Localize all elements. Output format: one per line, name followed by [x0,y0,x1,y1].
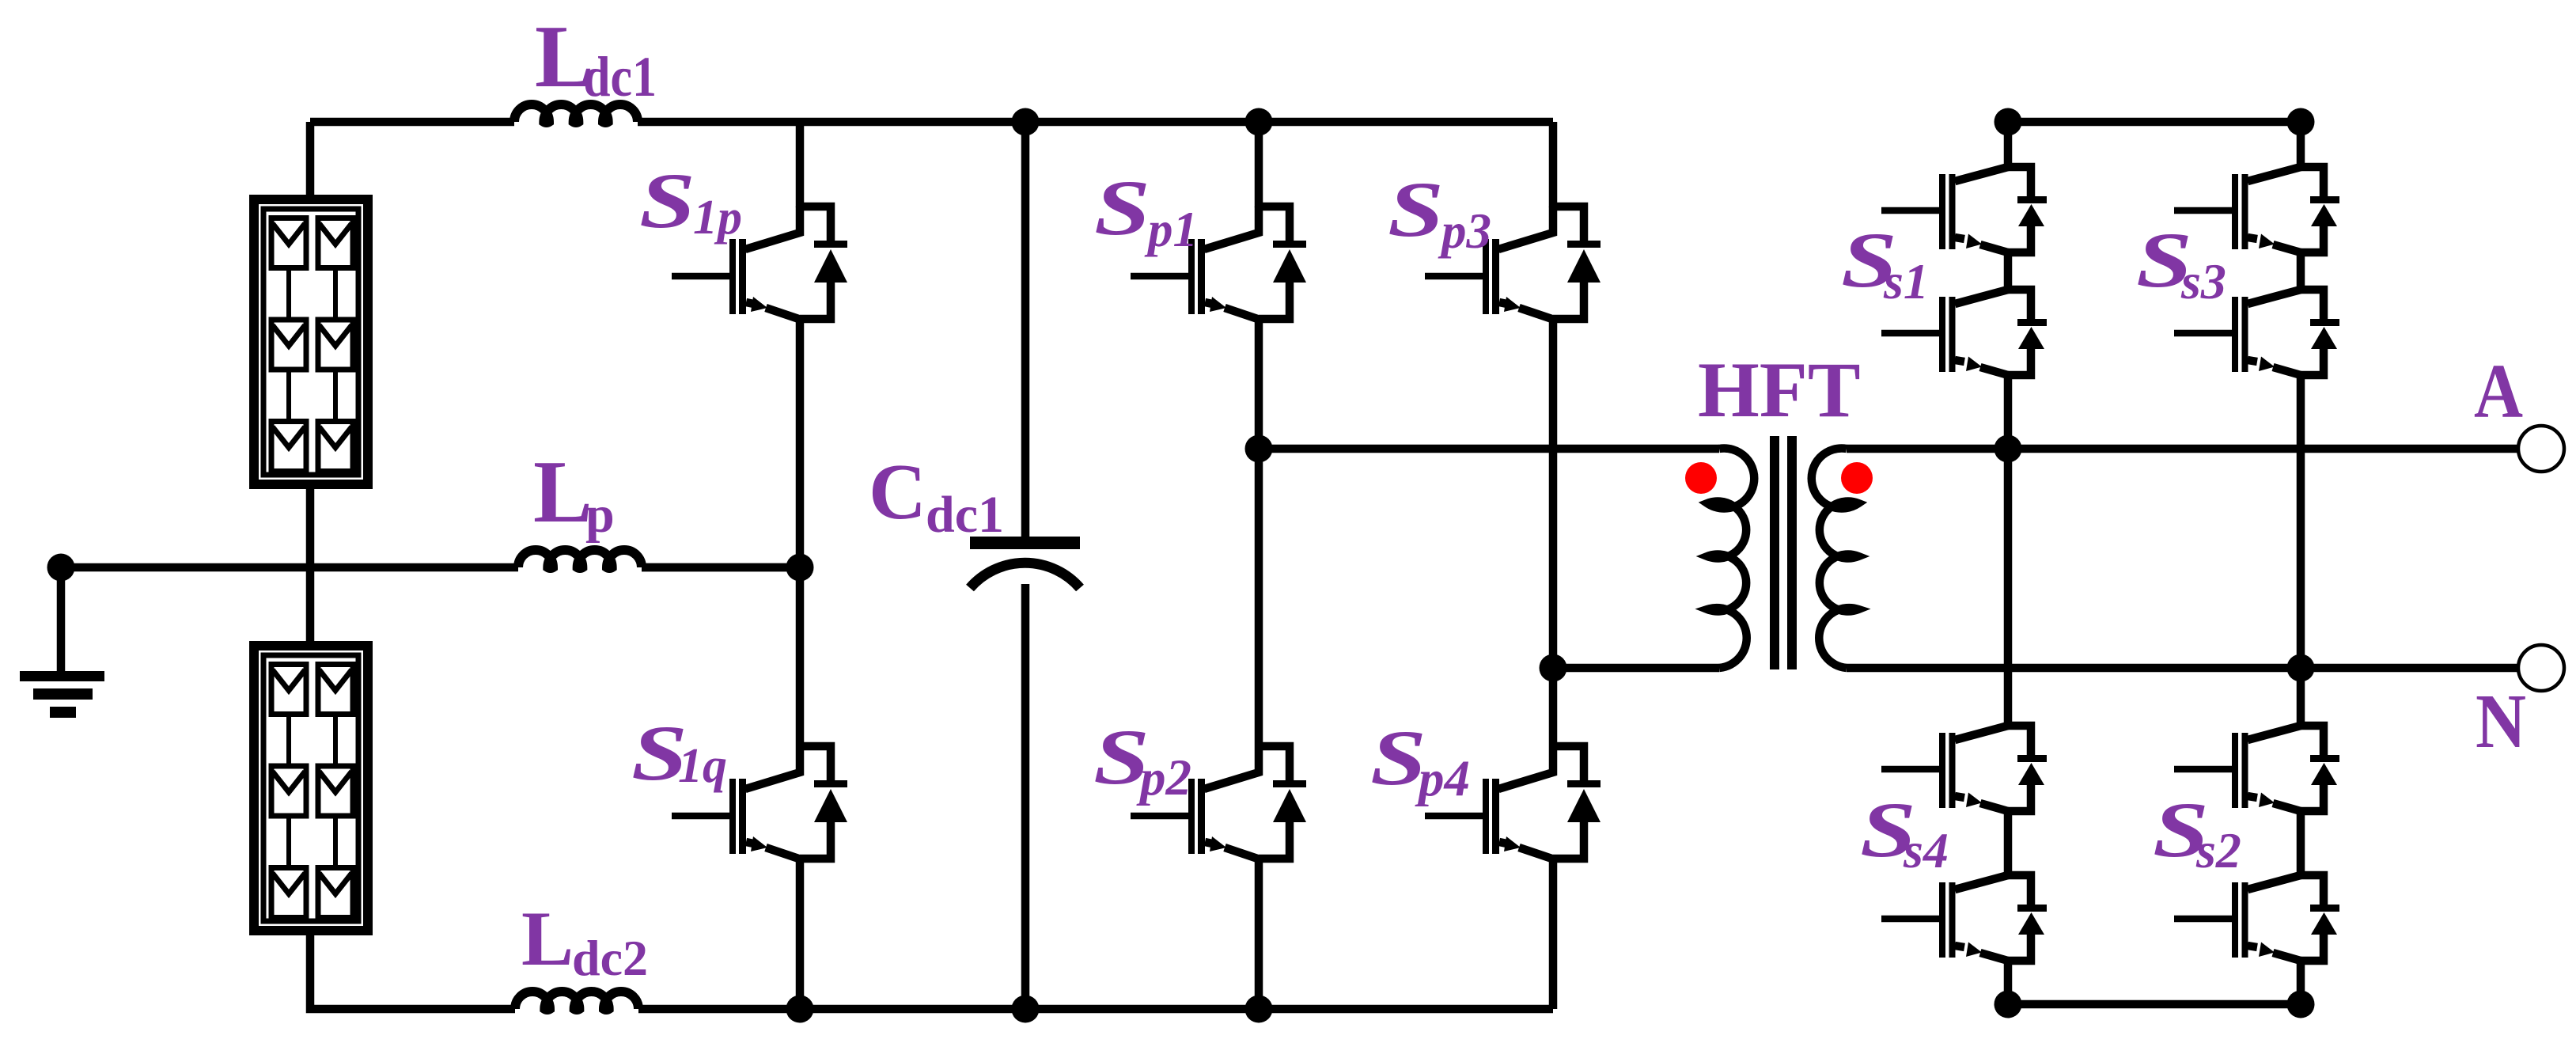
terminal A [2518,426,2564,472]
wire: HFT primary bottom lead [1553,664,1719,673]
svg-text:N: N [2476,679,2526,764]
wire: Lp to midpoint [642,563,800,572]
svg-text:1p: 1p [693,191,742,245]
junction node N at Ss3-Ss2 midpoint [2287,654,2315,682]
top DC rail [310,118,1553,127]
wire: HFT primary top lead [1259,445,1719,453]
inductor Ldc2 [515,992,638,1010]
svg-text:s4: s4 [1903,822,1949,878]
transistor Ss3 upper [2174,167,2339,252]
HFT primary winding [1707,448,1754,668]
wire: S1q leg [796,567,805,1009]
transistor Ss4 lower [1881,875,2047,961]
junction node Sp2 bottom [1245,996,1273,1023]
svg-text:dc1: dc1 [926,486,1004,544]
transistor S1p [672,207,847,320]
transistor Sp3 [1425,207,1601,320]
wire: output neutral N [1847,664,2518,673]
svg-text:S: S [1094,164,1150,252]
junction node S1q emitter to bottom rail [786,996,814,1023]
transistor Ss1 upper [1881,167,2047,252]
junction node S1p-S1q midpoint [786,554,814,582]
svg-text:L: L [521,896,574,982]
svg-text:s2: s2 [2195,822,2241,878]
wire: output phase A [1847,445,2518,453]
junction node Sp3-Sp4 midpoint [1540,654,1567,682]
junction node secondary top right [2287,108,2315,136]
transistor Sp1 [1131,207,1306,320]
bottom DC rail [638,1005,1553,1014]
HFT secondary winding [1812,448,1858,668]
wire: Ss1/Ss4 leg [2004,122,2013,1004]
transistor Sp2 [1131,746,1306,859]
junction node Cdc1 bottom [1012,996,1040,1023]
wire: PV string bottom lead to bottom rail [310,935,515,1009]
wire: S1p leg [796,122,805,567]
svg-text:1q: 1q [678,739,727,793]
junction node Cdc1 top [1012,108,1040,136]
svg-text:S: S [639,157,695,245]
wire: PV string midpoint lead [306,489,315,641]
svg-text:p3: p3 [1438,203,1491,259]
wire: neutral mid wire from ground to S1p/S1q midpoint [61,563,800,572]
svg-text:s3: s3 [2180,253,2226,309]
svg-text:s1: s1 [1883,253,1929,309]
transistor Ss2 lower [2174,875,2339,961]
junction node A at Ss1-Ss4 midpoint [1995,435,2022,463]
transistor Ss4 upper [1881,726,2047,811]
wire: Sp1/Sp2 leg [1255,122,1263,1009]
capacitor Cdc1 [970,122,1080,1009]
transistor S1q [672,746,847,859]
polarity dot primary [1685,462,1717,494]
transistor Ss1 lower [1881,290,2047,375]
transistor Sp4 [1425,746,1601,859]
svg-text:dc1: dc1 [583,45,657,108]
wire: Sp3/Sp4 leg [1549,122,1558,1009]
wire: PV string top lead [306,122,315,195]
transistor Ss2 upper [2174,726,2339,811]
secondary bottom rail [2008,1000,2301,1009]
HFT core [1775,436,1792,669]
ground [20,567,104,712]
svg-text:p2: p2 [1136,749,1191,806]
svg-text:A: A [2474,349,2523,434]
svg-text:S: S [1388,165,1444,253]
wire: Ss3/Ss2 leg [2297,122,2305,1004]
svg-text:dc2: dc2 [572,930,648,986]
polarity dot secondary [1841,462,1873,494]
junction node secondary bottom right [2287,991,2315,1018]
svg-text:p: p [585,486,615,544]
inductor Lp [518,550,642,568]
PV array PV2 [254,646,368,931]
junction ground node [47,554,75,582]
terminal N [2518,645,2564,691]
transistor Ss3 lower [2174,290,2339,375]
svg-text:L: L [533,443,593,541]
junction node Sp1 top [1245,108,1273,136]
svg-text:C: C [869,447,926,536]
junction node Sp1-Sp2 midpoint [1245,435,1273,463]
junction node secondary bottom left [1995,991,2022,1018]
secondary top rail [2008,118,2301,127]
svg-text:p1: p1 [1144,202,1198,257]
svg-text:p4: p4 [1415,750,1470,807]
inductor Ldc1 [514,104,638,123]
PV array PV1 [254,199,368,484]
svg-text:HFT: HFT [1698,346,1861,434]
junction node secondary top left [1995,108,2022,136]
